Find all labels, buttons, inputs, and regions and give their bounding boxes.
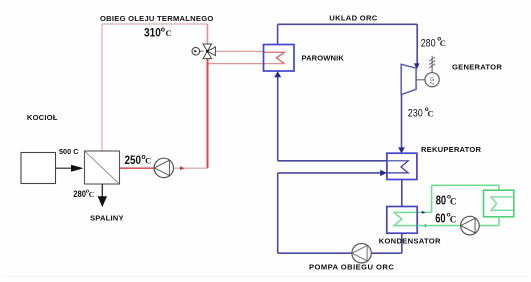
svg-text:C: C (427, 109, 433, 119)
heat exchanger (boiler gas/oil) box with diagonal (85, 151, 120, 184)
wire: ORC bottom line right (371, 252, 402, 254)
pump: ORC circuit pump (352, 244, 371, 263)
cooler box (484, 190, 514, 217)
svg-text:REKUPERATOR: REKUPERATOR (421, 145, 481, 154)
svg-text:SPALINY: SPALINY (90, 214, 124, 223)
wire: flue gas outlet (101, 184, 103, 197)
svg-text:280: 280 (73, 188, 86, 199)
svg-text:C: C (440, 38, 446, 48)
svg-text:310: 310 (144, 27, 161, 40)
wire: evaporator return line (209, 63, 285, 65)
wire: pump to vertical segment (174, 167, 208, 169)
label: 250 oC (125, 154, 152, 167)
wire: ORC left down vertical (277, 173, 279, 253)
label: 280 oC at spaliny (73, 188, 94, 199)
wire: hot oil vertical valve to pump line (207, 59, 209, 168)
svg-text:230: 230 (408, 108, 423, 120)
arrow: cooling water out (navy) (422, 211, 426, 214)
label: 80 oC (436, 193, 457, 207)
recuperator box (387, 153, 417, 179)
svg-text:C: C (166, 29, 172, 38)
valve actuator (192, 47, 204, 55)
wire: ORC top line UKLAD ORC (278, 23, 418, 25)
arrow: into recuperator left (380, 170, 387, 176)
evaporator PAROWNIK box (264, 45, 295, 72)
svg-text:OBIEG OLEJU TERMALNEGO: OBIEG OLEJU TERMALNEGO (100, 14, 214, 23)
wire: valve to evaporator top (216, 50, 264, 52)
arrow: into recuperator top (398, 147, 405, 153)
wire: cooling top horizontal (432, 184, 499, 186)
svg-text:C: C (450, 196, 457, 206)
arrow: red flow arrow (180, 166, 185, 170)
svg-text:G: G (430, 77, 434, 83)
condenser box (387, 207, 417, 234)
svg-text:C: C (89, 190, 94, 199)
wire: parownik feed vertical (277, 76, 279, 161)
arrow: into turbine (414, 63, 420, 69)
svg-text:C: C (145, 157, 151, 166)
label: 230 oC (408, 106, 434, 120)
condenser KONDENSATOR green coil (394, 212, 431, 225)
arrow: cooling water in (navy) (422, 224, 426, 227)
wire: recuperator outlet to parownik feed (278, 160, 387, 162)
label: 310 oC (144, 26, 172, 39)
arrow: SPALINY down arrow (98, 196, 107, 207)
wire: ORC vapor riser parownik top (277, 24, 279, 44)
wire: thermal oil left vertical (101, 24, 103, 151)
valve: 3-way valve (203, 44, 215, 59)
svg-text:C: C (450, 214, 457, 224)
label: 280 oC top right (421, 36, 446, 50)
wire: recuperator to condenser vertical (401, 180, 403, 207)
boiler KOCIOL box (21, 153, 56, 184)
svg-text:PAROWNIK: PAROWNIK (302, 53, 345, 62)
wire: condensate to recuperator (278, 172, 381, 174)
pump: thermal oil pump (154, 158, 173, 177)
arrow: boiler to exchanger (56, 165, 84, 172)
generator (425, 56, 439, 87)
label: 60 oC (435, 211, 456, 225)
wire: valve supply vertical (207, 24, 209, 44)
arrow: into parownik bottom (274, 71, 281, 77)
wire: turbine supply vertical (416, 24, 418, 63)
wire: turbine outlet vertical (401, 95, 403, 148)
faint bottom edge line (5, 275, 528, 277)
evaporator PAROWNIK red coil (264, 52, 285, 63)
svg-text:80: 80 (436, 193, 446, 207)
wire: radiator bottom drop (498, 217, 500, 226)
turbine (401, 64, 416, 94)
wire: ORC bottom line left (278, 252, 352, 254)
svg-text:60: 60 (435, 212, 445, 226)
cooler green coil (491, 197, 513, 210)
pump: cooling water pump (461, 216, 480, 235)
svg-text:KONDENSATOR: KONDENSATOR (379, 236, 441, 245)
svg-text:o: o (161, 26, 165, 33)
wire: turbine to generator link (416, 79, 425, 81)
svg-text:POMPA OBIEGU ORC: POMPA OBIEGU ORC (309, 263, 394, 272)
wire: hot oil horizontal exchanger to pump (120, 167, 155, 169)
wire: cooling drop to radiator (498, 185, 500, 190)
wire: cooling bottom line right (479, 225, 499, 227)
svg-text:280: 280 (421, 38, 436, 50)
wire: thermal oil top line (102, 23, 208, 25)
wire: condenser drain vertical (401, 233, 403, 253)
svg-text:GENERATOR: GENERATOR (452, 63, 502, 72)
svg-text:UKLAD ORC: UKLAD ORC (329, 14, 377, 23)
wire: cooling bottom line (417, 225, 460, 227)
recuperator REKUPERATOR coil (387, 161, 408, 173)
svg-text:KOCIOŁ: KOCIOŁ (27, 113, 58, 122)
svg-text:500 C: 500 C (59, 147, 79, 156)
svg-text:250: 250 (125, 154, 142, 167)
wire: cooling top riser (431, 185, 433, 212)
